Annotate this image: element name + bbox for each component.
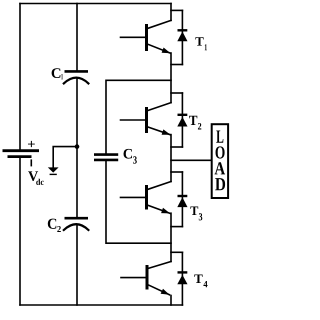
wire: T4 diode top jog — [171, 251, 182, 253]
transistor T4 base stub — [121, 277, 147, 279]
transistor T4 emitter arrowhead — [161, 289, 170, 295]
capacitor C3 bottom plate — [94, 159, 118, 162]
wire: output node vertical from T2 emitter to T3 collector — [170, 135, 172, 182]
capacitor C2 straight plate — [65, 217, 89, 220]
capacitor C3 top plate — [94, 153, 118, 156]
diode D4 branch wire — [181, 252, 183, 305]
diode D1 branch wire — [181, 10, 183, 64]
diode D1 cathode bar — [178, 29, 188, 31]
diode D3 branch wire — [181, 172, 183, 227]
transistor T3 emitter lead — [147, 205, 171, 214]
battery Vdc negative plate — [8, 155, 32, 158]
wire: left rail upper (Vdc positive to top rail) — [19, 4, 21, 150]
load box — [212, 124, 228, 198]
label: T2 — [189, 116, 197, 125]
wire: flying capacitor C3 bottom branch to node X2 — [106, 161, 171, 243]
diode D1 triangle — [177, 32, 187, 42]
wire: flying capacitor C3 top branch from node X1 — [106, 80, 171, 153]
label: T3 — [190, 207, 198, 216]
battery Vdc positive plate — [3, 149, 40, 152]
diode D2 branch wire — [181, 93, 183, 147]
transistor T1 emitter lead — [147, 44, 171, 54]
label: C1 — [52, 68, 61, 78]
label: C3 — [124, 149, 133, 159]
wire: rail between C1 and C2 — [76, 78, 78, 217]
transistor T4 emitter lead — [147, 284, 170, 295]
wire: bottom DC bus rail — [20, 304, 182, 306]
transistor T1 base stub — [121, 36, 147, 38]
transistor T2 base stub — [121, 119, 147, 121]
label: T1 — [195, 37, 203, 45]
wire: top DC bus rail — [20, 3, 171, 5]
label: LOAD — [216, 131, 223, 143]
transistor T3 collector lead — [147, 182, 172, 190]
wire: T1 diode bottom jog — [171, 64, 182, 66]
wire: rail below C2 to bottom rail — [76, 225, 78, 305]
transistor T2 base bar — [145, 107, 148, 133]
transistor T4 base bar — [146, 265, 149, 290]
wire: node X1 vertical from T1 emitter to T2 collector — [170, 53, 172, 103]
transistor T3 base bar — [145, 185, 148, 210]
wire: T3 diode bottom jog — [171, 226, 182, 228]
wire: ground branch — [53, 147, 77, 168]
wire: left rail lower (Vdc negative to bottom rail) — [19, 158, 21, 305]
transistor T2 emitter lead — [147, 127, 171, 135]
transistor T2 emitter arrowhead — [162, 129, 171, 134]
label: minus tick — [30, 160, 32, 165]
wire: output node to load — [171, 159, 212, 161]
label: plus sign — [28, 141, 35, 147]
wire: T2 diode bottom jog — [171, 146, 182, 148]
transistor T1 emitter arrowhead — [162, 48, 171, 54]
diode D3 triangle — [177, 197, 187, 207]
transistor T4 collector lead — [147, 262, 171, 269]
wire: node X2 vertical from T3 emitter to T4 collector — [170, 213, 172, 261]
capacitor C1 straight plate — [65, 70, 89, 73]
diode D2 triangle — [177, 117, 187, 127]
transistor T3 base stub — [121, 196, 147, 198]
wire: T3 diode top jog — [171, 171, 182, 173]
diode D4 cathode bar — [178, 271, 188, 273]
ground symbol — [48, 167, 59, 172]
transistor T1 collector lead — [147, 20, 172, 28]
capacitor C2 curved plate — [64, 224, 89, 230]
transistor T3 emitter arrowhead — [161, 208, 170, 214]
label: Vdc — [28, 171, 38, 181]
wire: C1/C2 rail top segment — [76, 4, 78, 71]
label: T4 — [194, 275, 202, 284]
wire: T4 emitter to bottom rail — [170, 296, 172, 306]
diode D2 cathode bar — [178, 114, 188, 116]
diode D4 triangle — [177, 275, 187, 285]
label: C2 — [48, 219, 57, 229]
wire: T2 diode top jog — [171, 92, 182, 94]
transistor T2 collector lead — [147, 103, 172, 111]
diode D3 cathode bar — [178, 195, 188, 197]
junction dot at ground tap — [75, 144, 80, 149]
wire: T1 collector stub from top rail — [170, 4, 172, 21]
capacitor C1 curved plate — [64, 78, 89, 84]
transistor T1 base bar — [145, 24, 148, 51]
wire: T1 diode top jog — [171, 9, 182, 11]
